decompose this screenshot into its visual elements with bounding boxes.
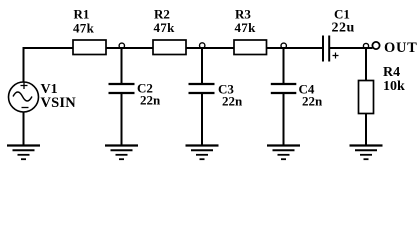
- resistor R2: [153, 40, 186, 55]
- wire: C4 to ground: [283, 93, 285, 145]
- wire: V1 top to R1 left: [24, 48, 74, 82]
- ground (under C3): [186, 146, 219, 160]
- svg-text:22n: 22n: [302, 93, 323, 108]
- wire: C3 to ground: [201, 93, 203, 145]
- wire: R1 to R2: [106, 47, 153, 49]
- svg-text:22u: 22u: [332, 21, 355, 36]
- wire: R4 to ground: [365, 113, 367, 145]
- svg-text:10k: 10k: [383, 79, 405, 94]
- wire: C1 right plate to OUT terminal: [330, 47, 373, 49]
- ground (under C2): [105, 146, 138, 160]
- node B junction circle: [200, 43, 205, 48]
- wire: node OUT down to R4: [365, 48, 367, 81]
- node A junction circle: [119, 43, 124, 48]
- svg-text:OUT: OUT: [384, 40, 418, 56]
- svg-text:47k: 47k: [154, 20, 176, 35]
- wire: node C down to C4: [283, 48, 285, 84]
- capacitor C4: [271, 84, 297, 93]
- ground (under R4): [350, 146, 383, 160]
- wire: node B down to C3: [201, 48, 203, 84]
- node C junction circle: [281, 43, 286, 48]
- svg-text:C1: C1: [334, 7, 350, 22]
- svg-text:22n: 22n: [140, 93, 161, 108]
- OUT terminal circle: [372, 42, 379, 49]
- resistor R4: [359, 81, 374, 114]
- ground (under V1): [7, 146, 40, 160]
- svg-text:R1: R1: [74, 7, 90, 22]
- ground (under C4): [267, 146, 300, 160]
- wire: V1 bottom to ground: [23, 112, 25, 145]
- svg-text:VSIN: VSIN: [41, 95, 77, 111]
- wire: R2 to R3: [186, 47, 234, 49]
- capacitor C2: [109, 84, 135, 93]
- node OUT junction circle: [363, 43, 368, 48]
- wire: R3 to C1 left plate: [266, 47, 322, 49]
- resistor R1: [73, 40, 106, 55]
- svg-text:22n: 22n: [222, 93, 243, 108]
- capacitor C3: [189, 84, 215, 93]
- capacitor C1: [323, 36, 339, 62]
- wire: C2 to ground: [121, 93, 123, 145]
- source V1: [9, 82, 39, 112]
- svg-text:47k: 47k: [235, 20, 257, 35]
- wire: node A down to C2: [121, 48, 123, 84]
- resistor R3: [234, 40, 267, 55]
- svg-text:47k: 47k: [73, 21, 95, 36]
